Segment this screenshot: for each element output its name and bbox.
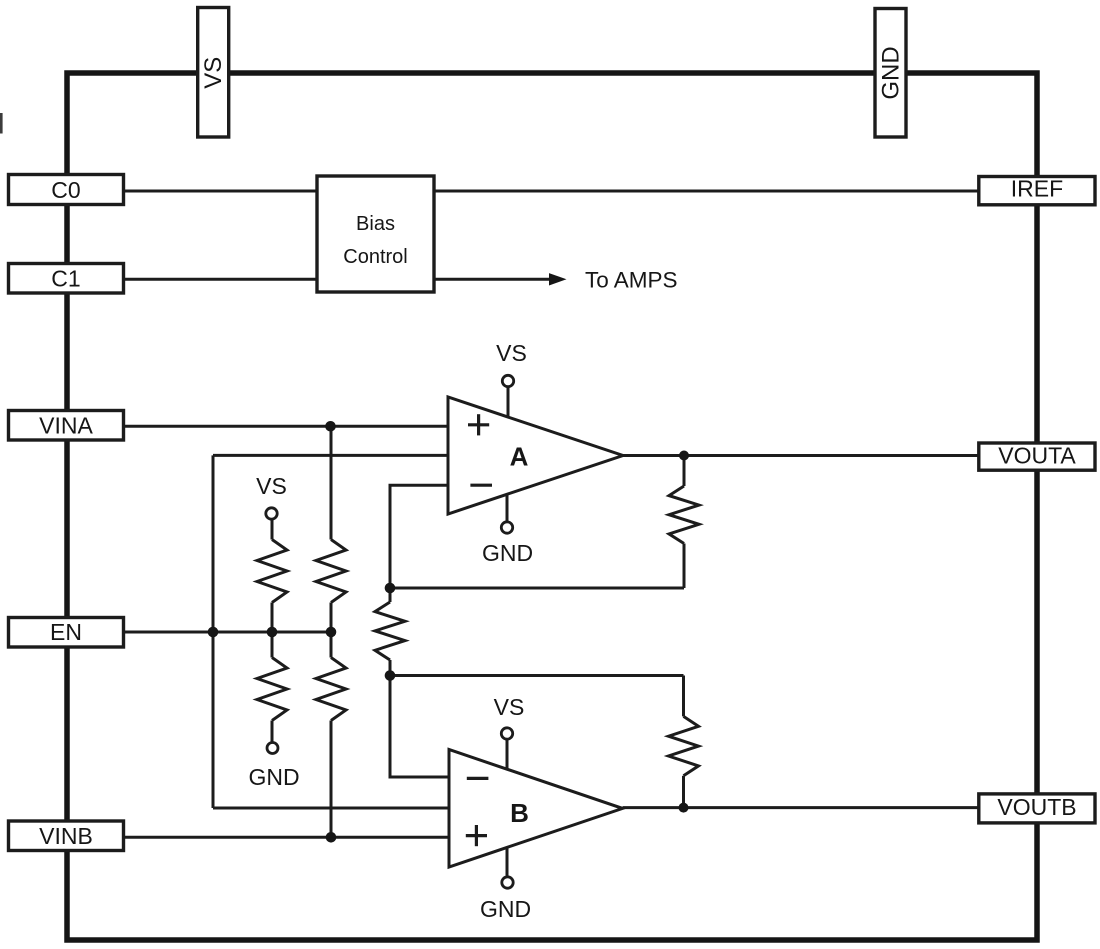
- node VINB junction: [326, 832, 337, 843]
- terminal VS resistor column: [266, 508, 277, 519]
- wire output A: [623, 454, 979, 457]
- svg-text:VS: VS: [496, 340, 527, 366]
- svg-text:C0: C0: [51, 177, 80, 203]
- pin VINA: [9, 411, 124, 441]
- svg-text:VOUTA: VOUTA: [998, 443, 1076, 469]
- wire column x331 from VINA: [330, 426, 333, 539]
- svg-text:A: A: [510, 442, 529, 472]
- node EN junction 3: [326, 627, 337, 638]
- wire GND stem op-amp B: [506, 848, 509, 876]
- svg-text:GND: GND: [878, 46, 905, 99]
- resistor R4 upper: [316, 540, 346, 603]
- wire C1 to Bias Control: [124, 278, 318, 281]
- pin VINB: [9, 821, 124, 851]
- pin C0: [9, 175, 124, 205]
- wire x390 upper: [389, 588, 392, 602]
- wire vertical x213: [212, 455, 215, 808]
- svg-text:To AMPS: To AMPS: [585, 267, 678, 292]
- wire Bias Control to IREF: [434, 190, 979, 193]
- node feedback B junction: [385, 670, 396, 681]
- wire column x272 VS to resistor: [271, 519, 274, 540]
- terminal GND op-amp B: [502, 877, 513, 888]
- wire R1 to EN: [271, 603, 274, 658]
- wire VS stem op-amp A: [507, 387, 510, 417]
- svg-text:EN: EN: [50, 619, 82, 645]
- wire C0 to Bias Control: [124, 190, 318, 193]
- pin VOUTB: [979, 794, 1095, 823]
- svg-text:GND: GND: [480, 896, 531, 922]
- node EN junction 1: [208, 627, 219, 638]
- svg-text:IREF: IREF: [1011, 176, 1063, 202]
- pin C1: [9, 264, 124, 294]
- op-amp A minus sign: [470, 484, 492, 487]
- svg-text:GND: GND: [482, 540, 533, 566]
- pin IREF: [979, 176, 1095, 205]
- Bias Control box: [317, 176, 434, 292]
- svg-text:VINB: VINB: [39, 823, 93, 849]
- wire mid input op-amp A: [213, 454, 448, 457]
- node VINA junction: [325, 421, 336, 432]
- node feedback A junction: [385, 583, 396, 594]
- svg-text:VS: VS: [200, 57, 227, 89]
- svg-text:C1: C1: [51, 266, 80, 292]
- svg-text:VINA: VINA: [39, 413, 93, 439]
- op-amp A plus sign: [468, 423, 489, 426]
- wire GND stem op-amp A: [506, 494, 509, 522]
- junction dots: [208, 421, 689, 843]
- resistor feedback A: [669, 486, 699, 544]
- wire output A stub: [683, 456, 686, 487]
- wire op-amp A - input: [390, 485, 448, 588]
- op-amp B plus sign: [466, 834, 487, 837]
- op-amp B: [449, 750, 623, 868]
- wire VINA to op-amp A + input: [124, 425, 449, 428]
- svg-text:VOUTB: VOUTB: [997, 794, 1076, 820]
- svg-text:B: B: [510, 798, 529, 828]
- wire output B: [623, 806, 979, 809]
- wire resistor A to feedback: [683, 544, 686, 589]
- wire VS stem op-amp B: [506, 740, 509, 770]
- terminal VS op-amp B: [501, 728, 512, 739]
- wire feedback A horizontal: [390, 587, 684, 590]
- wire x390 lower: [389, 660, 392, 676]
- svg-text:Bias: Bias: [356, 213, 395, 235]
- node output A junction: [679, 451, 689, 461]
- op-amp B minus sign: [467, 777, 489, 780]
- node output B junction: [679, 803, 689, 813]
- wire R2 to GND circle: [271, 721, 274, 743]
- wire resistor B to output: [682, 776, 685, 808]
- resistor R5 lower: [316, 658, 346, 721]
- svg-text:VS: VS: [256, 473, 287, 499]
- resistor R1 upper: [257, 540, 287, 603]
- pin EN: [9, 618, 124, 648]
- pin VOUTA: [979, 443, 1095, 471]
- terminal VS op-amp A: [502, 375, 513, 386]
- resistor R2 lower: [257, 658, 287, 721]
- wire Bias Control to arrow: [434, 278, 551, 281]
- svg-text:GND: GND: [248, 764, 299, 790]
- terminal GND resistor column: [267, 743, 278, 754]
- op-amp A: [448, 397, 623, 514]
- wire mid input op-amp B: [213, 807, 449, 810]
- wire x390 to op-amp B - input: [390, 676, 449, 778]
- node EN junction 2: [267, 627, 278, 638]
- resistor feedback B: [669, 716, 699, 775]
- terminal GND op-amp A: [501, 522, 512, 533]
- pin VS top: [198, 8, 229, 138]
- svg-text:VS: VS: [494, 694, 525, 720]
- wire feedback B horizontal: [390, 674, 684, 677]
- terminal circles: [266, 375, 514, 888]
- svg-text:Control: Control: [343, 246, 407, 268]
- wire R5 to VINB: [330, 721, 333, 838]
- arrowhead To AMPS: [549, 273, 567, 285]
- stray edge mark: [0, 113, 3, 134]
- wire R4 to EN: [330, 603, 333, 658]
- wire EN: [124, 631, 332, 634]
- resistor middle R3: [375, 602, 405, 660]
- wire VINB to op-amp B + input: [124, 836, 450, 839]
- wire feedback B vertical: [682, 676, 685, 717]
- pin GND top: [875, 9, 906, 138]
